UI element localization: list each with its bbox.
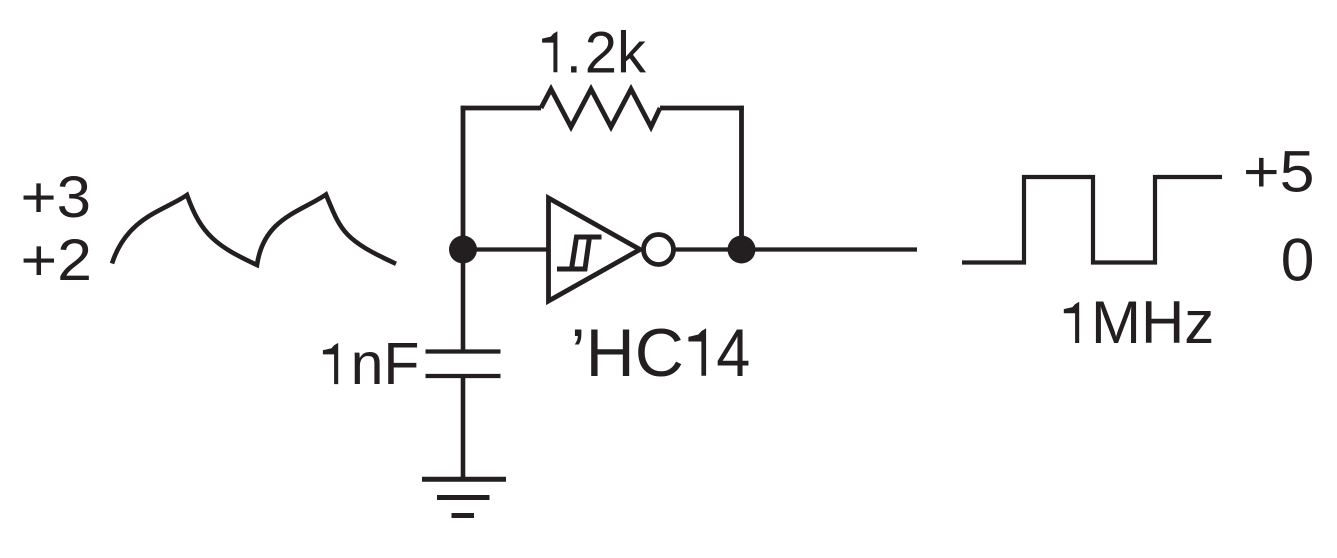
capacitor C1 top plate <box>426 349 501 353</box>
wire: capacitor to ground <box>461 376 466 479</box>
wire: output node to the right <box>742 247 918 251</box>
wire: feedback top horizontal left <box>461 106 541 111</box>
wire: feedback right vertical <box>739 106 744 250</box>
hysteresis symbol inside inverter <box>557 237 602 269</box>
svg-text:k: k <box>617 21 647 86</box>
inverter output bubble <box>644 235 674 265</box>
capacitor C1 bottom plate <box>426 374 501 378</box>
resistor value label 1.2k <box>542 31 557 72</box>
svg-text:nF: nF <box>351 331 420 397</box>
inverter U1 'HC14 triangle <box>549 198 641 301</box>
svg-text:’HC: ’HC <box>571 315 684 391</box>
junction dot: input node <box>449 236 477 264</box>
svg-text:4: 4 <box>716 315 750 391</box>
svg-text:+2: +2 <box>21 228 93 293</box>
svg-text:0: 0 <box>1281 226 1315 294</box>
junction dot: output node <box>728 236 756 264</box>
svg-text:+3: +3 <box>21 165 92 230</box>
capacitor value label 1nF <box>323 343 338 384</box>
wire: input node to inverter input <box>463 247 549 251</box>
svg-text:MHz: MHz <box>1091 289 1214 356</box>
wire: feedback top horizontal right <box>660 106 744 111</box>
svg-text:+5: +5 <box>1243 140 1315 205</box>
wire: bubble to output node <box>674 247 742 251</box>
wire: input node down to capacitor <box>461 250 466 352</box>
output square wave <box>962 177 1222 263</box>
frequency label 1MHz <box>1064 302 1079 343</box>
wire: feedback top left vertical <box>461 106 466 250</box>
resistor 1.2k zigzag <box>541 89 660 127</box>
ground symbol <box>422 479 506 515</box>
svg-text:.2: .2 <box>566 21 620 86</box>
input sawtooth waveform <box>112 195 396 266</box>
